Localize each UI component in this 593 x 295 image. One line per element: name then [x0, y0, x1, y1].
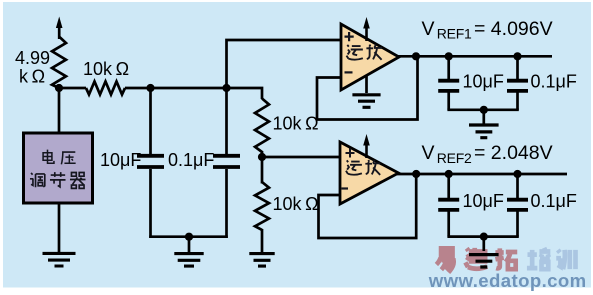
resistor R1 4.99k arrow to supply: [56, 17, 63, 40]
wire bus to ground: [188, 237, 191, 252]
node D junction: [258, 153, 266, 161]
wire op-amp U2 output rail VREF1: [398, 55, 552, 58]
wire bus2 to ground: [482, 237, 485, 251]
wire capacitor C4 top: [516, 56, 519, 80]
ground op-amp U2: [352, 95, 380, 108]
svg-text:V: V: [422, 18, 435, 40]
wire op-amp U3 output rail VREF2: [397, 173, 567, 176]
wire node A to resistor R2: [59, 87, 86, 90]
node B junction: [146, 84, 154, 92]
ground R4: [249, 254, 274, 267]
node bus C5-C6 junction: [480, 233, 488, 241]
wire bottom bus C5-C6: [447, 235, 518, 238]
node A junction: [55, 84, 63, 92]
resistor R1 4.99k zigzag: [52, 37, 66, 89]
op-amp U3 supply arrow: [363, 134, 370, 158]
op-amp U2 - pin: [345, 71, 353, 73]
node C junction: [222, 84, 230, 92]
op-amp U2 + pin: [345, 32, 354, 41]
capacitor C3 10uF plates: [438, 81, 459, 91]
svg-text:10k Ω: 10k Ω: [273, 194, 319, 214]
node bus C3-C4 junction: [480, 106, 488, 114]
svg-text:10k Ω: 10k Ω: [83, 59, 129, 79]
wire capacitor C4 bottom: [516, 92, 519, 110]
ground regulator: [43, 253, 76, 266]
wire capacitor C3 bottom: [447, 92, 450, 110]
wire node B to capacitor C1: [149, 88, 152, 154]
op-amp U3 + pin: [346, 149, 355, 158]
wire node C up to op-amp U1 + input rail: [227, 40, 342, 88]
node C5 junction: [445, 170, 453, 178]
label 电压 line 1: [43, 150, 54, 164]
voltage regulator box U1: [24, 133, 93, 203]
svg-text:k Ω: k Ω: [19, 67, 45, 87]
svg-text:www.edatop.com: www.edatop.com: [428, 270, 587, 291]
node C3 junction: [445, 52, 453, 60]
svg-text:V: V: [422, 142, 435, 164]
label 调节器 line 2: [30, 173, 45, 187]
ground bus1: [469, 125, 499, 138]
svg-text:10μF: 10μF: [100, 150, 141, 170]
svg-text:0.1μF: 0.1μF: [168, 150, 214, 170]
wire C2 to bottom bus: [225, 169, 228, 238]
wire capacitor C6 bottom: [516, 211, 519, 237]
watermark 易迪拓培训: [436, 248, 517, 271]
node C4 junction: [513, 52, 521, 60]
label 运放 U2: [347, 45, 363, 60]
ground bus2: [469, 255, 499, 267]
wire capacitor C5 bottom: [447, 211, 450, 237]
wire R4 to ground: [261, 229, 264, 252]
wire capacitor C6 top: [516, 174, 519, 200]
svg-text:0.1μF: 0.1μF: [531, 191, 577, 211]
resistor R2 10k zigzag: [86, 82, 125, 95]
op-amp U2: [341, 24, 399, 90]
svg-text:10μF: 10μF: [463, 191, 504, 211]
node VREF1 output junction: [412, 52, 420, 60]
svg-text:= 2.048V: = 2.048V: [474, 142, 553, 164]
wire R3 to node D: [261, 151, 264, 159]
wire C1 to bottom bus: [149, 169, 152, 238]
wire op-amp U2 ground stub: [365, 74, 368, 93]
label 运放 U3: [346, 160, 362, 174]
svg-text:4.99: 4.99: [15, 48, 50, 68]
capacitor C2 0.1uF plates: [213, 156, 240, 167]
svg-text:10μF: 10μF: [463, 71, 504, 91]
ground mid bus: [174, 254, 203, 267]
wire node C to capacitor C2: [225, 88, 228, 154]
capacitor C1 10uF plates: [137, 156, 164, 167]
wire op-amp U2 - input feedback loop: [317, 56, 418, 119]
wire capacitor C5 top: [447, 174, 450, 200]
wire R2 to node B/C and R3 corner: [125, 88, 262, 99]
node VREF2 output junction: [412, 170, 420, 178]
capacitor C5 10uF plates: [438, 200, 459, 210]
wire op-amp U3 - input feedback loop: [319, 174, 417, 238]
svg-text:= 4.096V: = 4.096V: [474, 18, 553, 40]
wire node D to op-amp U2 + input: [262, 156, 340, 159]
op-amp U3: [340, 142, 399, 204]
wire bottom bus C3-C4: [447, 108, 518, 111]
svg-text:REF1: REF1: [437, 26, 472, 42]
op-amp U3 - pin: [342, 187, 349, 189]
svg-text:0.1μF: 0.1μF: [531, 71, 577, 91]
wire node D to resistor R4: [261, 157, 264, 184]
capacitor C4 0.1uF plates: [507, 81, 528, 91]
wire regulator to ground: [58, 203, 61, 252]
resistor R4 10k zigzag: [255, 182, 269, 230]
capacitor C6 0.1uF plates: [507, 200, 528, 210]
wire R1 to node A and regulator: [58, 84, 61, 133]
node bus C1-C2 junction: [185, 233, 193, 241]
op-amp U2 supply arrow: [363, 17, 370, 41]
resistor R3 10k zigzag: [255, 99, 269, 153]
svg-text:REF2: REF2: [437, 150, 472, 166]
wire bottom bus C1-C2: [149, 235, 228, 238]
svg-text:10k Ω: 10k Ω: [273, 114, 319, 134]
wire bus1 to ground: [482, 110, 485, 124]
wire capacitor C3 top: [447, 56, 450, 80]
node C6 junction: [513, 170, 521, 178]
